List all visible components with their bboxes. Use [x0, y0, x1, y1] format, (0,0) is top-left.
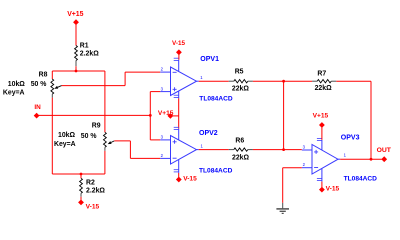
svg-text:V-15: V-15 — [172, 40, 185, 47]
svg-text:TL084ACD: TL084ACD — [199, 95, 233, 102]
svg-text:V+15: V+15 — [67, 11, 83, 18]
svg-text:R9: R9 — [92, 123, 101, 130]
svg-text:R7: R7 — [317, 71, 326, 78]
svg-text:R5: R5 — [235, 69, 244, 76]
svg-text:Key=A: Key=A — [3, 89, 25, 96]
svg-text:V+15: V+15 — [313, 112, 329, 119]
svg-text:OUT: OUT — [377, 147, 392, 154]
svg-text:2.2kΩ: 2.2kΩ — [80, 50, 99, 57]
svg-text:10kΩ: 10kΩ — [58, 132, 75, 139]
svg-text:R1: R1 — [80, 42, 89, 49]
svg-text:50 %: 50 % — [31, 81, 47, 88]
svg-text:TL084ACD: TL084ACD — [344, 175, 378, 182]
svg-text:V-15: V-15 — [326, 185, 340, 192]
svg-text:R8: R8 — [39, 71, 48, 78]
svg-text:R2: R2 — [86, 179, 95, 186]
svg-text:IN: IN — [34, 104, 41, 111]
svg-text:OPV3: OPV3 — [341, 135, 360, 142]
svg-text:V-15: V-15 — [183, 176, 197, 183]
svg-text:Key=A: Key=A — [54, 141, 76, 148]
svg-text:V+15: V+15 — [158, 110, 174, 117]
svg-text:50 %: 50 % — [81, 133, 97, 140]
svg-text:V-15: V-15 — [86, 203, 100, 210]
svg-text:R6: R6 — [235, 138, 244, 145]
svg-text:OPV2: OPV2 — [199, 130, 218, 137]
svg-text:22kΩ: 22kΩ — [315, 85, 332, 92]
svg-text:2.2kΩ: 2.2kΩ — [86, 188, 105, 195]
svg-text:22kΩ: 22kΩ — [232, 85, 249, 92]
svg-text:OPV1: OPV1 — [200, 56, 219, 63]
svg-text:22kΩ: 22kΩ — [232, 155, 249, 162]
svg-text:10kΩ: 10kΩ — [8, 81, 25, 88]
svg-text:TL084ACD: TL084ACD — [199, 168, 233, 175]
